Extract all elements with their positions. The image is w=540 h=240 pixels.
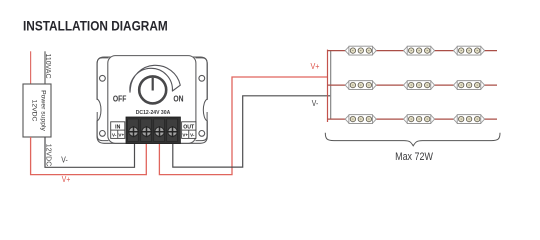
svg-text:V+: V+ xyxy=(182,133,188,138)
svg-text:DC12-24V 30A: DC12-24V 30A xyxy=(136,110,171,116)
svg-text:12VDC: 12VDC xyxy=(31,100,38,122)
svg-text:INSTALLATION DIAGRAM: INSTALLATION DIAGRAM xyxy=(23,18,168,34)
svg-text:Max 72W: Max 72W xyxy=(395,151,433,163)
svg-text:V+: V+ xyxy=(62,174,70,184)
svg-text:V-: V- xyxy=(112,133,117,138)
svg-text:V-: V- xyxy=(312,98,319,108)
svg-text:IN: IN xyxy=(115,124,120,130)
svg-text:V+: V+ xyxy=(118,133,124,138)
svg-text:ON: ON xyxy=(173,94,183,104)
svg-text:V+: V+ xyxy=(310,61,319,71)
svg-text:OUT: OUT xyxy=(183,124,195,130)
svg-text:OFF: OFF xyxy=(113,94,127,104)
svg-text:V-: V- xyxy=(61,155,68,165)
svg-text:V-: V- xyxy=(190,133,195,138)
svg-text:Power supply: Power supply xyxy=(39,90,46,131)
svg-text:110VAC: 110VAC xyxy=(44,53,51,78)
